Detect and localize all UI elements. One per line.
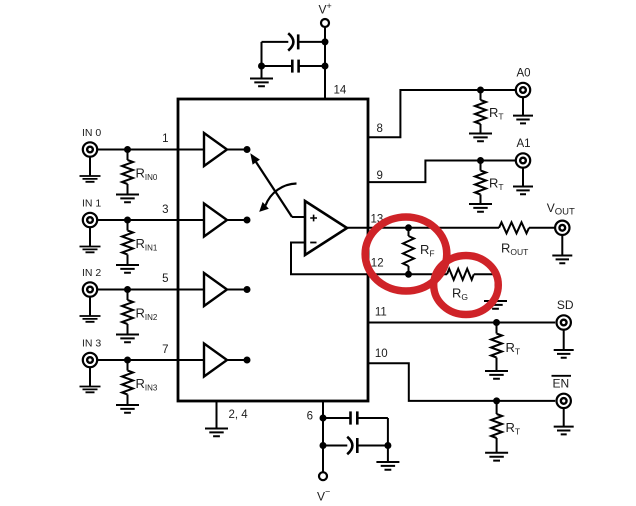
ground at A0 connector <box>513 116 533 124</box>
wire IN2 connector to ground <box>89 297 91 316</box>
ground at V+ caps <box>250 79 273 87</box>
ground at VOUT connector <box>552 256 572 264</box>
ground at RT (SD) <box>485 371 508 379</box>
switch arm arrowhead <box>250 153 260 164</box>
node buffer A output dot <box>244 146 251 153</box>
buffer amp B (IN1) <box>204 204 227 237</box>
capacitor C4 (polarized, V-) <box>323 445 347 447</box>
svg-text:1: 1 <box>162 133 168 145</box>
node V+ caps ground junction <box>258 63 265 70</box>
svg-text:A0: A0 <box>517 68 531 80</box>
resistor ROUT <box>499 222 529 233</box>
resistor RT (EN) <box>496 401 498 414</box>
buffer amp D (IN3) <box>204 344 227 377</box>
svg-text:3: 3 <box>162 204 168 216</box>
svg-text:A1: A1 <box>517 138 531 150</box>
node buffer C output dot <box>244 286 251 293</box>
svg-text:5: 5 <box>162 273 168 285</box>
ground at IN0 connector <box>80 176 101 182</box>
capacitor C2 (V+) <box>262 65 293 67</box>
op-amp U1A <box>305 201 347 255</box>
node junction IN1 <box>124 217 131 224</box>
buffer amp A (IN0) <box>204 133 227 166</box>
wire IN3 connector to ground <box>89 367 91 386</box>
wire to V- caps ground <box>387 446 389 463</box>
wire switch arm <box>256 162 292 217</box>
wire pin 6 to V- <box>322 401 324 472</box>
wire op-amp output to ROUT <box>347 227 499 229</box>
svg-text:9: 9 <box>377 170 383 182</box>
connector EN <box>557 394 571 408</box>
op-amp minus sign <box>310 242 316 244</box>
ground at V- caps <box>376 462 399 470</box>
svg-text:IN 0: IN 0 <box>82 127 101 139</box>
ground at IN2 connector <box>80 316 101 322</box>
ground at RT (A1) <box>469 204 492 212</box>
wire IN0 input to buffer <box>97 149 204 151</box>
ground at RIN3 <box>116 405 139 413</box>
ground at pins 2,4 <box>205 429 228 437</box>
node buffer B output dot <box>244 217 251 224</box>
resistor RIN2 <box>127 290 129 301</box>
svg-text:2, 4: 2, 4 <box>229 409 249 421</box>
resistor RIN3 <box>127 360 129 371</box>
ground at EN connector <box>554 427 574 435</box>
node RF bottom junction <box>405 271 412 278</box>
connector A0 <box>516 83 530 97</box>
wire pin 11 to SD <box>368 322 555 324</box>
op-amp plus sign <box>310 215 317 222</box>
svg-text:IN 3: IN 3 <box>82 338 101 350</box>
svg-text:12: 12 <box>371 258 384 270</box>
svg-text:IN 1: IN 1 <box>82 198 101 210</box>
node SD junction <box>493 319 500 326</box>
node A1 junction <box>477 157 484 164</box>
ground at A1 connector <box>513 187 533 195</box>
wire SD connector to ground <box>563 330 565 350</box>
resistor RT (A0) <box>480 90 482 100</box>
red circle around RF <box>365 217 447 291</box>
wire IN1 connector to ground <box>89 227 91 246</box>
wire RG to ground <box>474 274 496 301</box>
wire pin 9 to A1 <box>368 161 516 183</box>
wire pins 2,4 to ground <box>216 401 218 429</box>
red circle around RG <box>434 256 499 315</box>
wire buffer A output <box>227 149 244 151</box>
switch rotation arc arrowhead <box>259 202 269 212</box>
connector SD <box>557 315 571 329</box>
wire IN3 input to buffer <box>97 359 204 361</box>
svg-text:11: 11 <box>375 307 387 319</box>
ground at RG <box>484 301 507 309</box>
ground at RT (EN) <box>485 453 508 461</box>
ground at RIN2 <box>116 335 139 343</box>
connector VOUT <box>555 221 569 235</box>
connector IN1 <box>83 213 97 227</box>
switch rotation arc <box>266 184 297 206</box>
ground at RIN0 <box>116 195 139 203</box>
wire V+ to pin 14 <box>324 27 326 99</box>
terminal V- <box>319 472 327 480</box>
node junction IN3 <box>124 357 131 364</box>
wire to V+ caps ground <box>261 66 263 79</box>
node junction IN0 <box>124 146 131 153</box>
ground at IN3 connector <box>80 387 101 393</box>
wire feedback from inverting input to pin 12 <box>291 243 447 275</box>
svg-text:14: 14 <box>334 85 347 97</box>
wire buffer B output <box>227 219 244 221</box>
node EN junction <box>493 397 500 404</box>
resistor RIN0 <box>127 150 129 161</box>
node junction IN2 <box>124 286 131 293</box>
wire pin 10 to EN <box>368 363 555 401</box>
svg-text:7: 7 <box>162 344 168 356</box>
resistor RT (A1) <box>480 161 482 171</box>
svg-text:SD: SD <box>557 298 574 312</box>
ground at RIN1 <box>116 265 139 273</box>
wire EN connector to ground <box>563 408 565 427</box>
node V+ cap junction 1 <box>322 38 329 45</box>
resistor RG <box>447 269 474 280</box>
wire buffer C output <box>227 289 244 291</box>
ground at IN1 connector <box>80 247 101 253</box>
capacitor C3 (V-) <box>323 417 350 419</box>
wire buffer D output <box>227 359 244 361</box>
wire IN0 connector to ground <box>89 157 91 176</box>
wire pin 8 to A0 <box>368 90 516 137</box>
resistor RF <box>408 228 410 236</box>
node RF top junction <box>405 224 412 231</box>
wire V- caps right leg <box>387 418 389 446</box>
IC box U1 <box>178 99 368 401</box>
svg-text:EN: EN <box>553 377 570 391</box>
node buffer D output dot <box>244 357 251 364</box>
connector A1 <box>516 153 530 167</box>
wire A0 connector to ground <box>522 97 524 116</box>
wire ROUT to VOUT connector <box>529 227 555 229</box>
wire A1 connector to ground <box>522 168 524 187</box>
ground at RT (A0) <box>469 134 492 142</box>
svg-text:8: 8 <box>377 123 383 135</box>
wire V+ caps left leg <box>261 42 263 66</box>
wire IN2 input to buffer <box>97 289 204 291</box>
capacitor C1 (polarized, V+) <box>262 41 289 43</box>
buffer amp C (IN2) <box>204 273 227 306</box>
node A0 junction <box>477 87 484 94</box>
resistor RIN1 <box>127 220 129 231</box>
node V- cap junction 1 <box>320 415 327 422</box>
node V+ cap junction 2 <box>322 63 329 70</box>
svg-text:6: 6 <box>307 411 313 423</box>
wire IN1 input to buffer <box>97 219 204 221</box>
node V- cap junction 2 <box>320 442 327 449</box>
connector IN3 <box>83 353 97 367</box>
connector IN2 <box>83 282 97 296</box>
wire op-amp noninverting input <box>292 216 305 218</box>
ground at SD connector <box>554 350 574 358</box>
svg-text:10: 10 <box>375 348 388 360</box>
node V- caps ground junction <box>384 442 391 449</box>
wire VOUT connector to ground <box>561 235 563 256</box>
svg-text:IN 2: IN 2 <box>82 267 101 279</box>
resistor RT (SD) <box>496 323 498 334</box>
connector IN0 <box>83 142 97 156</box>
terminal V+ <box>321 19 329 27</box>
